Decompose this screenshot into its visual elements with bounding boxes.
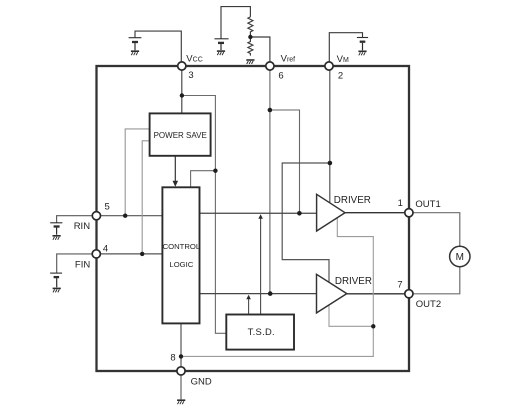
svg-text:CONTROL: CONTROL bbox=[163, 242, 201, 251]
svg-text:7: 7 bbox=[397, 279, 402, 290]
svg-text:GND: GND bbox=[191, 377, 212, 388]
svg-text:POWER SAVE: POWER SAVE bbox=[154, 131, 207, 140]
svg-text:5: 5 bbox=[105, 202, 110, 213]
svg-text:1: 1 bbox=[398, 198, 403, 209]
svg-text:T.S.D.: T.S.D. bbox=[248, 326, 275, 337]
svg-text:4: 4 bbox=[103, 243, 108, 254]
svg-text:FIN: FIN bbox=[75, 260, 90, 271]
svg-text:OUT1: OUT1 bbox=[415, 199, 440, 210]
svg-text:6: 6 bbox=[278, 71, 283, 82]
svg-text:M: M bbox=[456, 252, 464, 263]
svg-text:LOGIC: LOGIC bbox=[169, 260, 193, 269]
svg-text:8: 8 bbox=[170, 352, 175, 363]
svg-text:DRIVER: DRIVER bbox=[334, 195, 371, 206]
svg-text:2: 2 bbox=[338, 71, 343, 82]
svg-text:RIN: RIN bbox=[74, 221, 91, 232]
svg-text:DRIVER: DRIVER bbox=[335, 276, 372, 287]
svg-text:3: 3 bbox=[188, 70, 193, 81]
svg-text:OUT2: OUT2 bbox=[416, 299, 441, 310]
